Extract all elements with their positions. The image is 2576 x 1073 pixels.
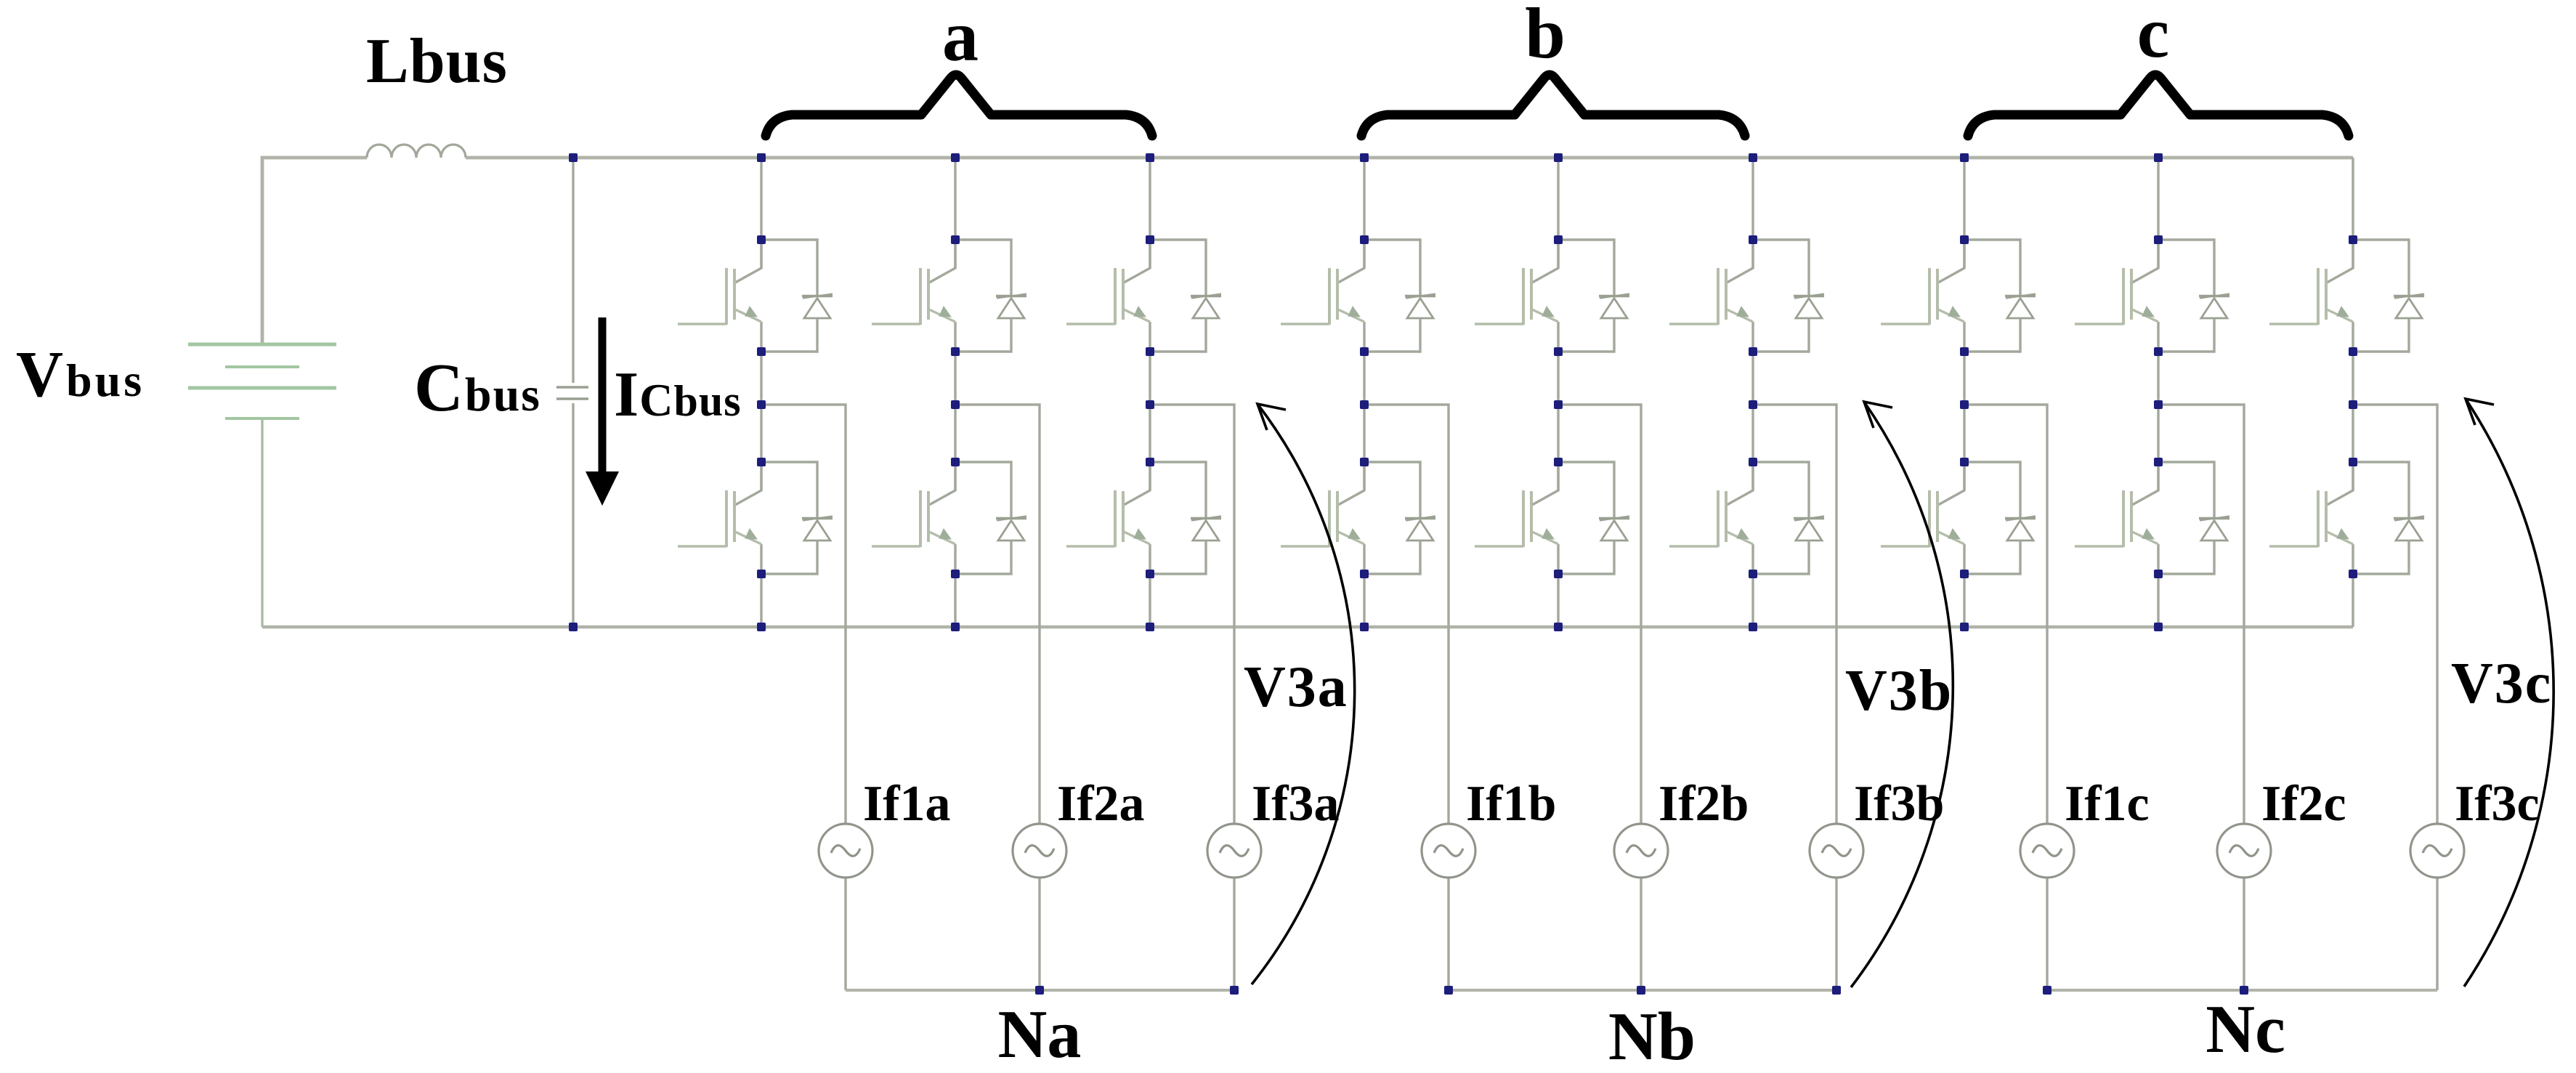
transistor Q3c-bot (IGBT) [2269, 462, 2353, 547]
diode D1c-bot [1964, 462, 2036, 574]
current source If2a [1013, 824, 1066, 878]
svg-text:Nb: Nb [1608, 999, 1696, 1073]
brace phase b [1361, 75, 1745, 136]
diode D3b-bot [1753, 462, 1824, 574]
wire leg 2c vertical [2157, 158, 2159, 627]
svg-text:V3a: V3a [1244, 655, 1348, 719]
diode D2a-top [955, 240, 1026, 352]
wire battery negative to bottom bus [261, 418, 263, 627]
junction nodes leg 3b [1749, 153, 1757, 631]
svg-text:If3a: If3a [1252, 776, 1340, 832]
wire node Na [846, 989, 1234, 992]
current source If2c [2217, 824, 2271, 878]
junction nodes leg 2a [951, 153, 960, 631]
diode D2a-bot [955, 462, 1026, 574]
wire output leg 1b [1364, 405, 1449, 990]
diode D3c-top [2353, 240, 2424, 352]
transistor Q3a-bot (IGBT) [1066, 462, 1150, 547]
brace phase a [766, 75, 1152, 136]
diode D3a-top [1150, 240, 1221, 352]
svg-text:If1b: If1b [1466, 776, 1556, 832]
transistor Q1c-top (IGBT) [1881, 240, 1964, 325]
transistor Q3a-top (IGBT) [1066, 240, 1150, 325]
diode D1a-bot [761, 462, 833, 574]
capacitor Cbus [556, 387, 588, 399]
junction dots node Nc [2043, 986, 2248, 995]
transistor Q2b-top (IGBT) [1475, 240, 1558, 325]
transistor Q3b-bot (IGBT) [1669, 462, 1753, 547]
wire node Nb [1449, 989, 1836, 992]
wire leg 3c vertical [2352, 158, 2354, 627]
wire leg 1b vertical [1363, 158, 1365, 627]
current source If1b [1422, 824, 1475, 878]
svg-text:If2c: If2c [2261, 776, 2346, 832]
svg-text:V3c: V3c [2451, 652, 2552, 716]
junction nodes leg 3c [2349, 235, 2357, 578]
svg-text:If3b: If3b [1854, 776, 1944, 832]
current source If3a [1207, 824, 1261, 878]
arrow V3a [1252, 404, 1355, 984]
wire bottom bus [262, 625, 2353, 628]
diode D3c-bot [2353, 462, 2424, 574]
wire output leg 1c [1964, 405, 2047, 990]
wire leg 2b vertical [1557, 158, 1559, 627]
transistor Q1c-bot (IGBT) [1881, 462, 1964, 547]
diode D3b-top [1753, 240, 1824, 352]
junction dots node Nb [1444, 986, 1841, 995]
transistor Q3b-top (IGBT) [1669, 240, 1753, 325]
inductor Lbus [367, 145, 466, 158]
transistor Q2a-bot (IGBT) [872, 462, 955, 547]
diode D1b-bot [1364, 462, 1435, 574]
diode D2c-top [2158, 240, 2229, 352]
current source If3b [1810, 824, 1863, 878]
junction nodes leg 1a [757, 153, 766, 631]
battery Vbus [188, 344, 336, 418]
junction nodes leg 2c [2154, 153, 2163, 631]
transistor Q1a-bot (IGBT) [678, 462, 761, 547]
diode D1b-top [1364, 240, 1435, 352]
junction dots node Na [1035, 986, 1239, 995]
svg-text:Nc: Nc [2206, 992, 2285, 1067]
diode D2c-bot [2158, 462, 2229, 574]
current source If1a [819, 824, 872, 878]
svg-text:If1c: If1c [2065, 776, 2150, 832]
junction nodes leg 2b [1554, 153, 1563, 631]
svg-text:b: b [1525, 0, 1566, 73]
current source If1c [2020, 824, 2074, 878]
current source If2b [1614, 824, 1668, 878]
brace phase c [1968, 75, 2349, 136]
wire output leg 3a [1150, 405, 1234, 990]
svg-text:If1a: If1a [863, 776, 951, 832]
arrow V3b [1851, 402, 1953, 987]
transistor Q2b-bot (IGBT) [1475, 462, 1558, 547]
svg-text:Na: Na [998, 997, 1082, 1072]
transistor Q3c-top (IGBT) [2269, 240, 2353, 325]
arrow V3c [2464, 399, 2553, 987]
arrow ICbus [586, 317, 619, 506]
node junction after Lbus [569, 153, 578, 631]
wire output leg 3b [1753, 405, 1836, 990]
svg-text:c: c [2137, 0, 2169, 73]
transistor Q1b-bot (IGBT) [1281, 462, 1364, 547]
svg-text:If3c: If3c [2455, 776, 2540, 832]
junction nodes leg 1b [1360, 153, 1369, 631]
wire leg 3a vertical [1149, 158, 1151, 627]
wire leg 1c vertical [1963, 158, 1965, 627]
wire output leg 2a [955, 405, 1040, 990]
svg-text:If2a: If2a [1057, 776, 1145, 832]
svg-text:V3b: V3b [1845, 659, 1953, 723]
current source If3c [2410, 824, 2464, 878]
wire output leg 1a [761, 405, 846, 990]
diode D1c-top [1964, 240, 2036, 352]
wire Cbus branch [572, 158, 574, 627]
junction nodes leg 1c [1960, 153, 1969, 631]
svg-text:a: a [942, 0, 979, 76]
wire leg 2a vertical [954, 158, 956, 627]
wire top bus [262, 158, 2353, 344]
diode D3a-bot [1150, 462, 1221, 574]
wire output leg 3c [2353, 405, 2437, 990]
transistor Q1a-top (IGBT) [678, 240, 761, 325]
diode D2b-bot [1558, 462, 1629, 574]
wire node Nc [2047, 989, 2437, 992]
svg-text:If2b: If2b [1658, 776, 1749, 832]
junction nodes leg 3a [1146, 153, 1154, 631]
svg-text:Lbus: Lbus [366, 26, 508, 97]
wire output leg 2b [1558, 405, 1641, 990]
transistor Q2c-top (IGBT) [2075, 240, 2158, 325]
wire leg 3b vertical [1751, 158, 1754, 627]
transistor Q1b-top (IGBT) [1281, 240, 1364, 325]
wire output leg 2c [2158, 405, 2244, 990]
wire leg 1a vertical [760, 158, 762, 627]
diode D1a-top [761, 240, 833, 352]
diode D2b-top [1558, 240, 1629, 352]
transistor Q2a-top (IGBT) [872, 240, 955, 325]
transistor Q2c-bot (IGBT) [2075, 462, 2158, 547]
